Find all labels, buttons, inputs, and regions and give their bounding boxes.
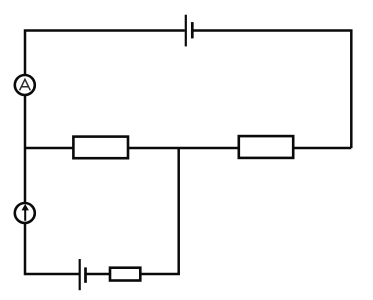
wire middle horizontal — [25, 147, 351, 150]
resistor (bottom) — [110, 268, 140, 281]
resistor (middle-left) — [73, 137, 128, 159]
battery cell (bottom) short plate — [84, 267, 87, 282]
wire bottom + branch vertical — [86, 148, 179, 274]
battery cell (top) long plate — [185, 15, 187, 47]
resistor (middle-right) — [239, 136, 293, 158]
battery cell (bottom) long plate — [79, 259, 81, 290]
current source arrow — [24, 209, 26, 221]
wire top-right + right side — [192, 31, 351, 149]
ammeter A — [15, 75, 35, 95]
current source — [15, 203, 35, 223]
battery cell (top) short plate — [191, 22, 194, 38]
wire top-left + left side + bottom-left segment — [25, 31, 185, 275]
